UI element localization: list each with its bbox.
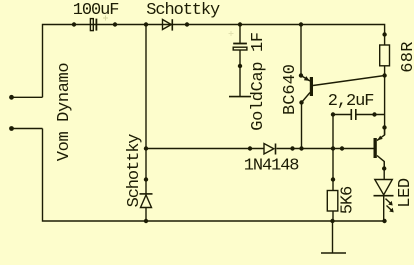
junction dot top rail x187 <box>185 22 189 26</box>
wire left vertical to bottom rail <box>43 129 385 222</box>
transistor Q1 collector diagonal <box>302 93 311 103</box>
diode D1 Schottky top cathode bar <box>171 19 173 30</box>
ground G2 stem <box>332 221 334 253</box>
terminal dot 2 <box>9 126 14 131</box>
junction dot 1N4148 left pin <box>248 146 252 150</box>
LED D4 light arrow 1 <box>386 199 392 205</box>
junction dot top rail x146 <box>144 22 148 26</box>
junction dot 68R top pin <box>382 32 386 36</box>
junction dot Q2 emitter pin <box>382 125 386 129</box>
resistor R1 68R body <box>380 45 390 66</box>
diode D2 1N4148 triangle <box>264 144 274 155</box>
junction dot 5K6 top pin <box>331 177 335 181</box>
junction dot top rail x240 <box>238 22 242 26</box>
LED arrowhead 1 <box>388 201 393 206</box>
junction dot 68R bottom node <box>382 73 386 77</box>
svg-text:68R: 68R <box>399 41 414 73</box>
junction dot top rail x74 <box>72 22 76 26</box>
svg-text:GoldCap 1F: GoldCap 1F <box>249 32 268 131</box>
transistor Q2 collector lead <box>377 156 384 169</box>
wire goldcap to ground <box>239 50 241 96</box>
junction dot 2.2uF left pin <box>331 112 335 116</box>
junction dot 2.2uF right pin <box>372 112 376 116</box>
transistor Q2 emitter lead <box>377 128 385 141</box>
wire goldcap branch <box>239 25 241 43</box>
junction dot bottom rail end <box>382 219 386 223</box>
ground G2 bar <box>321 252 346 254</box>
svg-text:2,2uF: 2,2uF <box>328 92 374 111</box>
wire 5K6 to bottom rail <box>332 211 334 221</box>
junction dot schottky vertical top pin <box>144 177 148 181</box>
wire terminal 1 lead <box>12 96 43 98</box>
capacitor C2 GoldCap top solid plate <box>233 43 247 45</box>
wire top rail <box>43 25 385 98</box>
wire 2.2uF left lead <box>333 114 351 116</box>
svg-text:1N4148: 1N4148 <box>244 157 300 176</box>
wire terminal 2 lead <box>12 128 43 130</box>
svg-text:5K6: 5K6 <box>338 186 357 214</box>
capacitor C1 100uF right solid plate <box>95 19 97 31</box>
transistor Q1 base lead sloped <box>313 76 385 86</box>
svg-text:Schottky: Schottky <box>125 134 144 208</box>
junction dot mid line x301.5 <box>299 146 303 150</box>
LED arrowhead 2 <box>389 208 394 213</box>
svg-text:BC640: BC640 <box>281 64 300 115</box>
LED D4 light arrow 2 <box>387 206 393 212</box>
junction dot Q1 emitter pin <box>299 73 303 77</box>
wire 5K6 branch <box>332 149 334 191</box>
svg-text:100uF: 100uF <box>73 1 119 20</box>
junction dot bottom rail x146 <box>144 219 148 223</box>
terminal dot 1 <box>9 95 14 100</box>
wire 68R node vertical <box>384 66 386 136</box>
transistor Q2 base bar <box>374 138 377 158</box>
junction dot goldcap pin <box>238 64 242 68</box>
transistor Q2 emitter arrowhead <box>377 136 383 141</box>
wire middle vertical x=146 lower <box>145 208 147 222</box>
wire middle vertical x=146 upper <box>145 25 147 195</box>
wire 2.2uF right lead <box>356 114 384 116</box>
diode D3 Schottky vertical triangle <box>141 195 152 208</box>
polarity plus C1 <box>103 16 108 21</box>
transistor Q1 emitter arrowhead <box>304 76 310 81</box>
wire 2.2uF left branch down <box>332 115 334 149</box>
ground G1 bar <box>229 96 251 98</box>
wire BC640 collector vertical <box>301 103 303 149</box>
LED D4 triangle <box>375 180 393 195</box>
junction dot Q2 collector pin <box>382 166 386 170</box>
svg-text:Schottky: Schottky <box>146 1 220 20</box>
polarity plus C2 <box>229 31 234 36</box>
diode D3 Schottky vertical cathode bar <box>140 193 153 195</box>
diode D1 Schottky top triangle <box>163 20 172 30</box>
capacitor C1 100uF left hollow plate <box>90 19 93 31</box>
diode D2 1N4148 cathode bar <box>275 144 277 155</box>
wire mid horizontal y=148.5 left of 1N4148 <box>146 148 264 150</box>
capacitor C3 2.2uF left plate <box>350 109 352 120</box>
capacitor C3 2.2uF right plate <box>355 109 357 120</box>
resistor R2 5K6 body <box>327 191 338 212</box>
wire Q2 collector to LED <box>383 162 385 180</box>
capacitor C2 GoldCap bottom hollow plate <box>233 47 247 50</box>
transistor Q1 BC640 base bar <box>310 77 313 96</box>
junction dot top rail x301 <box>299 22 303 26</box>
junction dot bottom rail x332.5 <box>330 219 334 223</box>
junction dot Q1 collector pin <box>299 100 303 104</box>
junction dot mid line x333 <box>331 146 335 150</box>
svg-text:Vom Dynamo: Vom Dynamo <box>55 63 74 162</box>
junction dot Q2 base pin <box>340 146 344 150</box>
transistor Q1 emitter diagonal <box>301 76 310 82</box>
svg-text:LED: LED <box>396 178 414 208</box>
junction dot top rail x115 <box>113 22 117 26</box>
wire BC640 emitter vertical <box>300 25 302 76</box>
wire mid horizontal y=148.5 right of 1N4148 <box>277 148 374 150</box>
LED D4 cathode bar <box>374 195 394 197</box>
junction dot 1N4148 right pin <box>290 146 294 150</box>
junction dot mid line x146 <box>144 146 148 150</box>
wire LED to bottom rail <box>383 196 385 221</box>
